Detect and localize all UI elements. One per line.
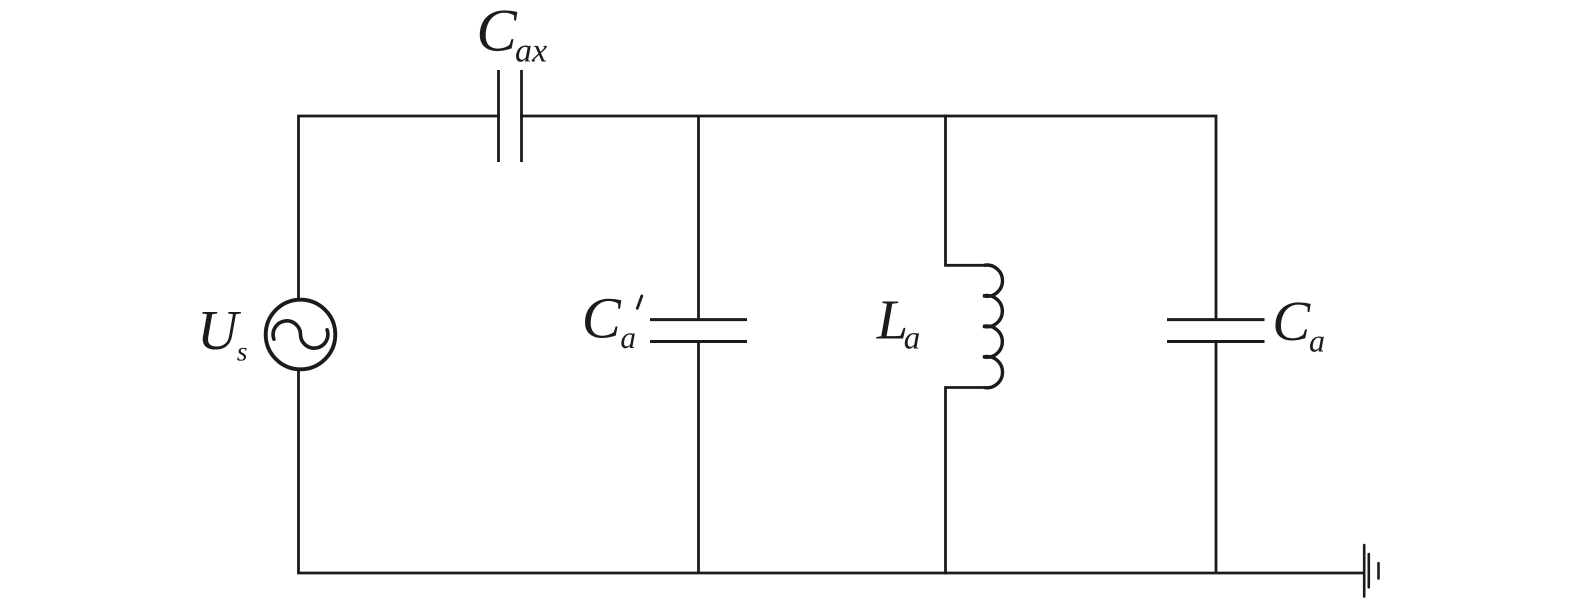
svg-text:a: a <box>620 320 636 355</box>
source US sine <box>273 321 328 348</box>
svg-text:U: U <box>197 300 241 362</box>
svg-text:C: C <box>1272 290 1311 353</box>
wire top left segment <box>299 116 499 300</box>
wire bottom <box>297 572 1364 575</box>
wire source bottom <box>297 370 300 573</box>
label Ca prime mark <box>637 296 642 308</box>
svg-text:C: C <box>582 285 622 350</box>
capacitor Ca plate bottom <box>1167 340 1265 343</box>
wire branch La bottom <box>946 388 985 574</box>
capacitor Ca' plate bottom <box>650 340 747 343</box>
wire top right segment <box>522 116 1217 318</box>
capacitor Cax plate right <box>520 70 523 162</box>
svg-text:s: s <box>237 336 248 366</box>
ground bar 2 <box>1368 554 1371 587</box>
source US circle <box>266 300 336 370</box>
capacitor Cax plate left <box>497 70 500 162</box>
svg-text:a: a <box>904 320 921 356</box>
wire branch La top <box>946 116 985 265</box>
svg-text:ax: ax <box>515 32 547 69</box>
wire branch Ca bottom <box>1215 343 1218 573</box>
ground bar 1 <box>1363 545 1366 597</box>
wire branch Ca' bottom <box>697 343 700 573</box>
svg-text:a: a <box>1309 322 1325 358</box>
capacitor Ca plate top <box>1167 318 1265 321</box>
capacitor Ca' plate top <box>650 318 747 321</box>
inductor La coils <box>983 265 1002 388</box>
svg-text:C: C <box>476 0 517 65</box>
wire branch Ca' top <box>697 116 700 318</box>
ground bar 3 <box>1377 563 1380 578</box>
